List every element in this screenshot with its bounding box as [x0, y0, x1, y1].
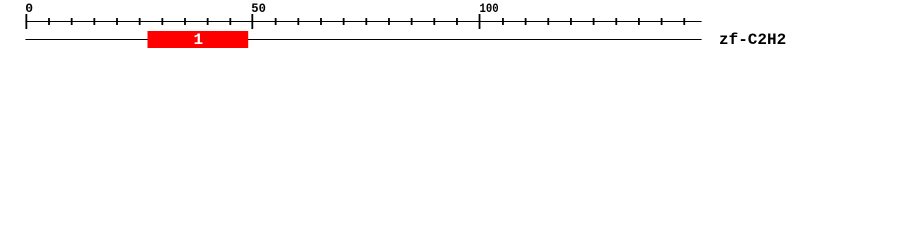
- minor tick 125: [593, 18, 595, 25]
- minor tick 70: [343, 18, 345, 25]
- minor tick 135: [638, 18, 640, 25]
- minor tick 115: [547, 18, 549, 25]
- minor tick 120: [570, 18, 572, 25]
- minor tick 45: [229, 18, 231, 25]
- sequence line: [25, 39, 701, 40]
- minor tick 130: [615, 18, 617, 25]
- minor tick 95: [456, 18, 458, 25]
- domain box 1 (zf-C2H2): [148, 31, 249, 48]
- minor tick 5: [48, 18, 50, 25]
- minor tick 105: [502, 18, 504, 25]
- minor tick 85: [411, 18, 413, 25]
- major tick 50: [251, 14, 253, 29]
- minor tick 80: [388, 18, 390, 25]
- minor tick 25: [139, 18, 141, 25]
- minor tick 65: [320, 18, 322, 25]
- minor tick 110: [525, 18, 527, 25]
- minor tick 140: [661, 18, 663, 25]
- minor tick 20: [116, 18, 118, 25]
- svg-text:100: 100: [480, 1, 499, 16]
- minor tick 60: [297, 18, 299, 25]
- minor tick 15: [93, 18, 95, 25]
- svg-text:0: 0: [25, 1, 33, 16]
- background: [0, 0, 900, 58]
- minor tick 30: [161, 18, 163, 25]
- minor tick 90: [433, 18, 435, 25]
- minor tick 35: [184, 18, 186, 25]
- svg-text:1: 1: [193, 31, 203, 49]
- minor tick 40: [207, 18, 209, 25]
- minor tick 10: [71, 18, 73, 25]
- minor tick 55: [275, 18, 277, 25]
- major tick 100: [479, 14, 481, 29]
- major tick 0: [25, 14, 27, 29]
- svg-text:50: 50: [251, 1, 266, 16]
- ruler axis line: [25, 21, 701, 22]
- minor tick 145: [683, 18, 685, 25]
- svg-text:zf-C2H2: zf-C2H2: [719, 31, 786, 49]
- minor tick 75: [365, 18, 367, 25]
